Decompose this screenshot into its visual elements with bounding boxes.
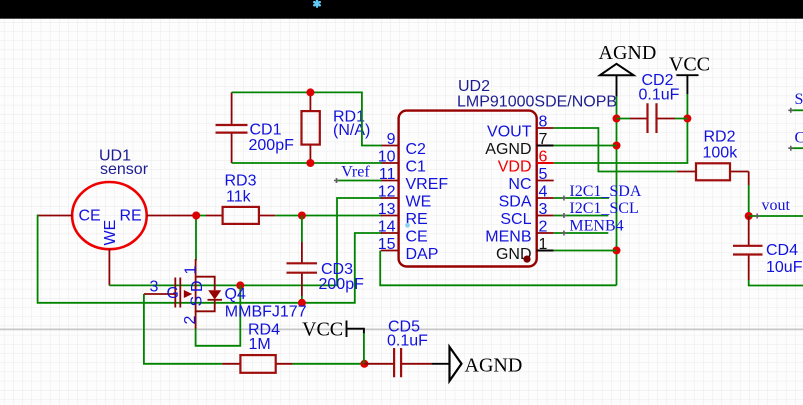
transistor Q4 MMBFJ177 drain lead pin1 <box>195 259 197 277</box>
wire AGND vertical rail <box>616 97 618 286</box>
resistor RD4 <box>222 363 292 365</box>
Q4 gate bars <box>175 278 180 308</box>
node CD1/RD1 bottom junction <box>306 159 314 167</box>
svg-text:9: 9 <box>387 131 396 148</box>
cursor marker dot <box>405 223 410 228</box>
svg-text:WE: WE <box>102 220 119 246</box>
major grid line <box>0 328 803 330</box>
svg-text:VCC: VCC <box>669 54 710 76</box>
sensor UD1 circle <box>72 182 147 249</box>
UD2 pin 6 stub (VDD red) <box>537 162 554 164</box>
wire pin1 GND to rail <box>554 250 617 252</box>
svg-text:MENB4: MENB4 <box>569 218 623 235</box>
svg-text:CD1: CD1 <box>250 122 282 139</box>
svg-text:I2C1_SCL: I2C1_SCL <box>569 200 638 217</box>
svg-text:Vref: Vref <box>341 164 370 181</box>
svg-text:SCL: SCL <box>500 211 531 228</box>
svg-text:8: 8 <box>539 114 548 131</box>
Q4 body diode <box>208 290 221 299</box>
svg-text:I2C1_SDA: I2C1_SDA <box>569 183 641 200</box>
resistor RD2 <box>677 172 749 186</box>
resistor RD1 <box>309 92 311 163</box>
svg-text:S: S <box>795 91 803 108</box>
node VCC/CD2 right junction <box>683 115 691 123</box>
resistor RD3 <box>206 215 275 217</box>
svg-text:VOUT: VOUT <box>487 124 532 141</box>
wire VOUT to RD2 <box>554 128 677 172</box>
svg-text:4: 4 <box>539 184 548 201</box>
wire SDA to net label <box>554 197 609 199</box>
Q4 gate lead pin3 <box>144 293 175 295</box>
svg-text:C: C <box>795 129 803 146</box>
UD1 CE pin lead <box>38 215 73 217</box>
UD2 left pin stubs 9-15 <box>381 146 399 251</box>
svg-text:13: 13 <box>378 201 396 218</box>
svg-text:1: 1 <box>183 266 200 275</box>
svg-text:VDD: VDD <box>498 159 532 176</box>
node CD1/RD1 top junction <box>306 88 314 96</box>
node AGND/pin7 junction <box>613 142 621 150</box>
svg-text:D: D <box>189 280 206 292</box>
svg-text:3: 3 <box>539 201 548 218</box>
capacitor CD5 <box>364 363 393 365</box>
svg-text:6: 6 <box>539 149 548 166</box>
svg-text:11k: 11k <box>226 189 252 206</box>
wire VCC down to VDD row <box>554 94 688 163</box>
wire pin7 AGND to rail <box>554 145 617 147</box>
svg-text:C1: C1 <box>406 159 427 176</box>
svg-text:VCC: VCC <box>302 319 343 341</box>
node WE/Q4-source junction <box>236 281 244 289</box>
svg-text:5: 5 <box>539 166 548 183</box>
svg-text:AGND: AGND <box>465 355 523 377</box>
wire SCL to net label <box>554 215 609 217</box>
wire MENB to net label <box>554 232 609 234</box>
svg-text:RD3: RD3 <box>225 173 257 190</box>
svg-text:Q4: Q4 <box>225 286 246 303</box>
GND pin dot marker <box>523 256 530 263</box>
svg-text:CD4: CD4 <box>766 242 798 259</box>
svg-text:0.1uF: 0.1uF <box>639 87 680 104</box>
UD2 pin 1 stub (black) <box>537 250 554 252</box>
capacitor CD4 <box>748 216 750 280</box>
svg-text:1M: 1M <box>249 336 271 353</box>
UD2 right pin stubs 8,5,4,3,2 <box>537 128 554 233</box>
net label MENB4 anchor <box>561 231 566 236</box>
node AGND/pin1 junction <box>613 246 621 254</box>
svg-text:MMBFJ177: MMBFJ177 <box>225 304 307 321</box>
svg-text:LMP91000SDE/NOPB: LMP91000SDE/NOPB <box>457 93 617 110</box>
net label C anchor <box>788 146 793 151</box>
net label I2C1_SCL anchor <box>561 213 566 218</box>
svg-text:2: 2 <box>539 219 548 236</box>
svg-text:DAP: DAP <box>406 246 439 263</box>
wire WE net: sensor WE line A to pin 12 <box>109 198 381 285</box>
svg-text:AGND: AGND <box>485 141 531 158</box>
wire C net stub at right edge <box>791 147 803 149</box>
svg-text:7: 7 <box>539 131 548 148</box>
wire DAP to AGND rail <box>380 251 616 286</box>
svg-text:200pF: 200pF <box>249 137 295 154</box>
net label S anchor <box>788 108 793 113</box>
svg-text:MENB: MENB <box>485 229 531 246</box>
modified-doc star icon <box>314 1 320 7</box>
capacitor CD3 <box>301 216 303 243</box>
svg-text:SDA: SDA <box>499 194 532 211</box>
net label I2C1_SDA anchor <box>561 196 566 201</box>
wire Vref net to pin 11 <box>337 180 382 182</box>
wire RE net green segments <box>196 215 382 217</box>
svg-text:AGND: AGND <box>599 42 657 64</box>
wire RD4 to VCC node <box>293 363 365 365</box>
node RE/RD3 left junction <box>192 212 200 220</box>
wire CE net: sensor CE loop to pin 14 <box>38 215 382 303</box>
node CD3 bottom / CE line junction <box>298 299 306 307</box>
node RD3 right / CD3 top junction <box>298 212 306 220</box>
svg-text:VREF: VREF <box>406 176 449 193</box>
svg-text:G: G <box>167 285 179 302</box>
node vout junction <box>745 212 753 220</box>
wire RE node to Q4 drain <box>195 216 197 261</box>
svg-text:C2: C2 <box>406 141 427 158</box>
svg-text:100k: 100k <box>703 145 739 162</box>
svg-text:RE: RE <box>120 207 142 224</box>
power AGND (bottom) arrow port <box>432 363 450 365</box>
svg-text:2: 2 <box>182 316 199 325</box>
svg-text:vout: vout <box>762 197 791 214</box>
UD2 pin 7 stub (black) <box>537 145 554 147</box>
title bar <box>0 0 803 19</box>
svg-text:RD2: RD2 <box>704 129 736 146</box>
svg-text:CE: CE <box>406 229 428 246</box>
IC UD2 LMP91000SDE/NOPB body <box>399 111 537 267</box>
wire Q4 source U-loop to WE junction <box>196 285 241 345</box>
capacitor CD2 <box>617 118 688 120</box>
svg-text:12: 12 <box>378 184 396 201</box>
svg-text:sensor: sensor <box>100 161 149 178</box>
wire C2 net top rail <box>232 92 382 145</box>
svg-text:200pF: 200pF <box>319 276 365 293</box>
UD1 WE pin lead <box>108 249 110 285</box>
svg-text:14: 14 <box>378 219 396 236</box>
capacitor CD1 <box>231 92 233 163</box>
net label Vref anchor <box>334 178 339 183</box>
svg-text:0.1uF: 0.1uF <box>387 333 428 350</box>
svg-text:3: 3 <box>150 279 159 296</box>
Q4 source lead pin2 <box>195 311 197 328</box>
svg-text:10uF: 10uF <box>766 259 803 276</box>
wire VCC stem to junction <box>363 333 365 364</box>
svg-text:(N/A): (N/A) <box>333 122 370 139</box>
Q4 channel and drain/source outline <box>196 277 215 312</box>
wire vout net to right edge <box>749 215 803 217</box>
node RD4/VCC/CD5 junction <box>360 360 368 368</box>
svg-text:NC: NC <box>508 176 531 193</box>
svg-text:15: 15 <box>378 236 396 253</box>
UD1 RE pin lead <box>147 215 197 217</box>
svg-text:1: 1 <box>539 236 548 253</box>
svg-text:S: S <box>189 296 206 307</box>
wire C1 net bottom rail <box>232 162 382 164</box>
svg-text:WE: WE <box>406 194 432 211</box>
Q4 gate arrow <box>184 290 193 298</box>
wire RD2 down to vout node <box>748 185 750 216</box>
wire S net stub at right edge <box>791 109 803 111</box>
net label vout anchor <box>755 214 760 219</box>
svg-text:CE: CE <box>79 207 101 224</box>
node AGND/CD2 left junction <box>613 115 621 123</box>
wire Q4 gate to RD4 <box>144 294 223 364</box>
